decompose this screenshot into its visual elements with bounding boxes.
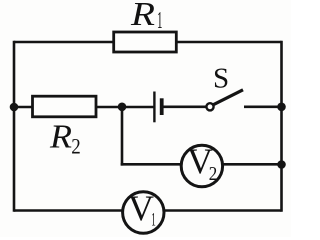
svg-text:1: 1 xyxy=(157,8,163,34)
wire voltmeter V2 branch vertical xyxy=(121,107,124,166)
switch S blade xyxy=(214,90,243,105)
resistor R2 xyxy=(33,96,97,117)
svg-text:V: V xyxy=(128,188,154,228)
wire battery to switch xyxy=(163,106,207,109)
node junction right V2 branch xyxy=(277,160,286,169)
wire top side xyxy=(14,41,282,44)
battery cell: long positive plate xyxy=(153,92,155,123)
wire middle branch left (to battery) xyxy=(14,106,154,109)
svg-text:S: S xyxy=(213,62,229,94)
wire switch to right side xyxy=(244,106,282,109)
svg-text:R: R xyxy=(130,0,155,33)
node junction right middle xyxy=(277,103,286,112)
node junction left (R2 / V1 branch) xyxy=(10,103,19,112)
resistor R1 xyxy=(114,32,177,52)
voltmeter V2 xyxy=(181,145,222,186)
switch S pivot circle xyxy=(206,103,213,110)
wire right side xyxy=(280,41,283,212)
node junction between R2 and battery xyxy=(118,103,127,112)
voltmeter V1 xyxy=(123,192,164,233)
wire left side xyxy=(13,41,16,212)
svg-text:1: 1 xyxy=(151,209,156,230)
label R2 xyxy=(49,119,81,159)
label R1 xyxy=(130,0,163,34)
svg-text:2: 2 xyxy=(71,133,81,158)
svg-text:R: R xyxy=(49,119,72,156)
battery cell: short negative plate xyxy=(160,98,164,115)
wire bottom side xyxy=(14,209,282,212)
label V1 xyxy=(128,188,156,230)
svg-text:2: 2 xyxy=(209,164,218,185)
wire voltmeter V2 branch horizontal xyxy=(121,163,282,166)
label V2 xyxy=(187,141,217,185)
